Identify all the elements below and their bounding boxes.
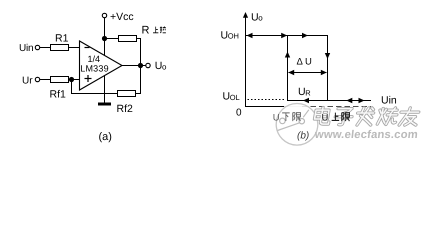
op-amp U1 LM339 triangle (80, 41, 123, 90)
power terminal +Vcc (102, 13, 106, 17)
svg-text:+Vcc: +Vcc (110, 11, 134, 23)
y axis Uo (245, 14, 247, 107)
watermark text zi (334, 109, 354, 125)
wire Rf2 to output node (136, 66, 141, 94)
arrows on bottom branch (303, 98, 309, 103)
dotted UOL reference line (248, 99, 287, 101)
junction dot at Rf1/+input node (69, 77, 74, 82)
arrow down on right edge (325, 53, 330, 59)
svg-text:o: o (162, 62, 167, 71)
input terminal Uin (35, 45, 39, 49)
watermark text fa (356, 108, 375, 125)
wire output to terminal (122, 65, 146, 67)
resistor Rf1 (51, 77, 69, 83)
wire op-amp V+ pin (104, 39, 106, 57)
watermark text shao (377, 108, 398, 125)
svg-text:www.elecfans.com: www.elecfans.com (313, 129, 418, 141)
svg-text:Rf1: Rf1 (50, 89, 67, 101)
x axis Uin solid part (245, 106, 284, 108)
svg-text:LM339: LM339 (80, 63, 109, 73)
op-amp plus sign (85, 78, 92, 80)
wire Uin to R1 (40, 47, 51, 49)
input terminal Ur (35, 77, 39, 81)
wire junction to pull-up resistor (105, 38, 119, 40)
output terminal Uo (146, 63, 150, 67)
wire Ur to Rf1 (40, 79, 51, 81)
svg-text:Uin: Uin (19, 43, 33, 54)
watermark logo bar (278, 123, 300, 131)
svg-text:Δ U: Δ U (297, 57, 312, 68)
resistor Rf2 (118, 91, 136, 97)
watermark text you (399, 108, 420, 125)
wire Rf1 to non-inverting input (69, 79, 80, 81)
loop right edge (upper threshold) (327, 36, 329, 102)
watermark logo circle (276, 104, 318, 146)
ground bar (98, 103, 111, 106)
x axis faint part under watermark circle (284, 106, 302, 108)
svg-text:Uin: Uin (381, 95, 397, 107)
loop left edge (lower threshold) (287, 36, 289, 102)
UOH level line / loop top branch (246, 35, 328, 37)
resistor R1 (51, 45, 69, 51)
junction dot at Vcc node (102, 36, 107, 41)
svg-text:U: U (322, 113, 329, 124)
svg-text:o: o (258, 14, 263, 23)
wire R1 to inverting input (69, 47, 80, 49)
arrow up on left edge (285, 52, 290, 58)
x axis broken part under watermark text (302, 106, 371, 108)
loop bottom branch UOL level (288, 100, 372, 102)
svg-text:Ur: Ur (22, 75, 33, 86)
svg-text:R: R (142, 25, 150, 37)
delta-U span line (289, 72, 327, 74)
wire feedback node down and right to Rf2 (72, 80, 118, 94)
delta-U arrowheads (288, 70, 294, 75)
wire op-amp gnd pin (104, 75, 106, 104)
svg-text:OL: OL (230, 93, 240, 102)
wire +Vcc down to junction (104, 18, 106, 39)
watermark text dian (314, 108, 332, 125)
watermark logo ring 1 (280, 118, 286, 124)
arrows on UOH branch (247, 33, 253, 38)
svg-text:OH: OH (228, 32, 239, 41)
svg-text:R1: R1 (55, 33, 69, 45)
svg-text:R: R (305, 88, 311, 97)
watermark logo ring 2 (299, 119, 304, 124)
svg-text:(b): (b) (297, 131, 309, 142)
junction dot at output node (138, 63, 143, 68)
wire pull-up to output node (137, 39, 141, 66)
op-amp minus sign (85, 47, 90, 49)
svg-text:0: 0 (236, 107, 242, 118)
svg-text:Rf2: Rf2 (117, 103, 134, 115)
resistor R pull-up (119, 36, 137, 42)
svg-text:U: U (273, 113, 280, 124)
svg-text:(a): (a) (99, 131, 112, 143)
y axis arrowhead (243, 12, 248, 18)
svg-text:1/4: 1/4 (88, 54, 101, 64)
